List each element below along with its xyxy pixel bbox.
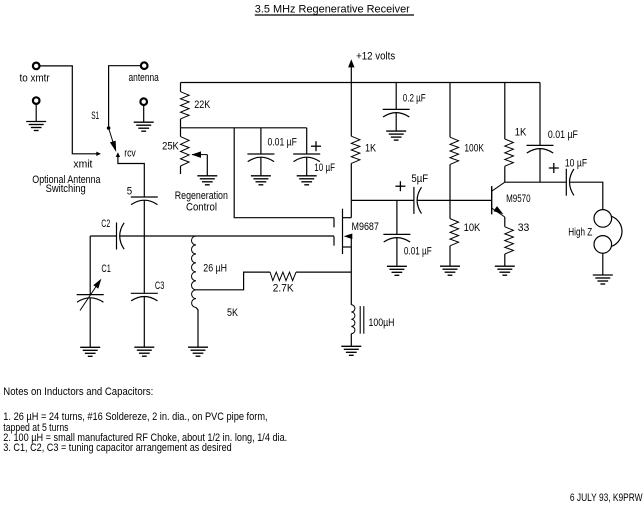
ground 0.01uF bypass bbox=[251, 176, 271, 185]
terminal antenna bbox=[141, 62, 148, 69]
capacitor 10 uF regen bypass bbox=[306, 128, 308, 154]
resistor 10K bbox=[450, 219, 459, 246]
svg-text:5K: 5K bbox=[227, 307, 239, 319]
svg-text:C2: C2 bbox=[101, 218, 110, 230]
wire drain to node bbox=[350, 200, 352, 217]
svg-text:3. C1, C2, C3 = tuning capacit: 3. C1, C2, C3 = tuning capacitor arrange… bbox=[3, 442, 231, 454]
ground 10uF bypass bbox=[297, 176, 317, 185]
plus sign 10uF bbox=[311, 145, 321, 147]
capacitor C1 variable bbox=[77, 294, 104, 296]
svg-text:5: 5 bbox=[127, 185, 132, 197]
wire wiper to ground bbox=[206, 155, 208, 176]
transistor M9570 NPN bbox=[491, 186, 493, 214]
capacitor C2 bbox=[116, 223, 118, 250]
inductor 100uH RF choke bbox=[351, 305, 355, 334]
wire choke to ground bbox=[350, 334, 352, 347]
wire C3 to ground bbox=[143, 297, 145, 348]
svg-text:10 µF: 10 µF bbox=[565, 157, 587, 169]
capacitor 5 pF antenna coupling bbox=[131, 196, 158, 198]
ground 10K bbox=[440, 266, 460, 275]
ground 26uH coil bbox=[188, 347, 208, 356]
inductor 26 uH tank coil bbox=[192, 236, 196, 307]
svg-text:+12 volts: +12 volts bbox=[356, 51, 396, 63]
wire phones to ground bbox=[602, 253, 604, 275]
svg-text:C3: C3 bbox=[155, 280, 164, 292]
svg-text:10K: 10K bbox=[464, 222, 481, 234]
ground 25K wiper bbox=[197, 176, 217, 185]
svg-text:S1: S1 bbox=[91, 110, 99, 122]
capacitor 0.01 uF output bypass bbox=[539, 83, 541, 146]
wire collector node bbox=[505, 181, 567, 183]
wire cap 5 to tank line bbox=[143, 200, 145, 236]
svg-text:Notes on Inductors and Capacit: Notes on Inductors and Capacitors: bbox=[3, 386, 153, 398]
plus sign 5uF bbox=[395, 185, 405, 187]
plus sign 10uF output bbox=[549, 167, 559, 169]
svg-text:to xmtr: to xmtr bbox=[20, 73, 50, 85]
svg-text:33: 33 bbox=[518, 222, 530, 234]
svg-text:High Z: High Z bbox=[568, 227, 592, 239]
capacitor 5uF coupling bbox=[413, 187, 415, 214]
svg-text:Regeneration: Regeneration bbox=[175, 190, 228, 202]
ground antenna terminal bbox=[134, 122, 154, 131]
svg-text:10 µF: 10 µF bbox=[314, 162, 335, 174]
svg-text:xmit: xmit bbox=[73, 159, 92, 171]
wire coil tap to 2.7K bbox=[196, 272, 270, 290]
terminal ground left bbox=[33, 97, 40, 104]
svg-text:1. 26 µH = 24 turns, #16 Solde: 1. 26 µH = 24 turns, #16 Soldereze, 2 in… bbox=[3, 411, 267, 423]
svg-text:0.2 µF: 0.2 µF bbox=[403, 93, 426, 105]
terminal to xmtr bbox=[33, 63, 40, 70]
capacitor C3 bbox=[131, 292, 158, 294]
wire 2.7K to source column bbox=[296, 271, 351, 273]
svg-text:antenna: antenna bbox=[129, 72, 160, 84]
+12 volts arrow bbox=[350, 67, 352, 83]
svg-text:6 JULY 93, K9PRW: 6 JULY 93, K9PRW bbox=[570, 492, 643, 504]
wire tank to C3 bbox=[143, 236, 145, 293]
svg-text:rcv: rcv bbox=[124, 148, 136, 160]
resistor 1K drain load bbox=[350, 83, 352, 137]
switch S1 blade bbox=[109, 128, 113, 142]
ground C1 bbox=[80, 347, 100, 356]
resistor 1K collector load bbox=[504, 83, 506, 140]
resistor 22K bbox=[180, 83, 182, 92]
svg-text:M9570: M9570 bbox=[506, 193, 530, 205]
title underline bbox=[255, 14, 414, 16]
wire drain node line bbox=[351, 199, 414, 201]
resistor 100K bbox=[449, 83, 451, 138]
svg-text:5µF: 5µF bbox=[411, 173, 428, 185]
svg-text:C1: C1 bbox=[101, 263, 110, 275]
capacitor 0.01 uF detector bypass bbox=[396, 200, 398, 234]
resistor 33 emitter bbox=[504, 217, 506, 227]
xmit contact arrow bbox=[96, 152, 101, 156]
svg-text:2.7K: 2.7K bbox=[273, 283, 294, 295]
svg-text:26 µH: 26 µH bbox=[203, 263, 227, 275]
svg-text:1K: 1K bbox=[365, 143, 377, 155]
ground 0.01uF detector bbox=[387, 266, 407, 275]
resistor 2.7K bbox=[270, 272, 296, 281]
ground 0.2uF bbox=[386, 131, 406, 140]
svg-text:100K: 100K bbox=[464, 142, 484, 154]
wire rcv contact to cap 5 bbox=[118, 157, 144, 197]
wire C1 branch down bbox=[89, 236, 91, 295]
transistor M9687 dual-gate MOSFET bbox=[333, 218, 335, 228]
svg-text:M9687: M9687 bbox=[352, 221, 379, 233]
svg-text:0.01 µF: 0.01 µF bbox=[404, 246, 432, 258]
headphones High Z bbox=[594, 210, 612, 228]
svg-text:100µH: 100µH bbox=[369, 317, 395, 329]
ground choke bbox=[341, 346, 361, 355]
svg-text:25K: 25K bbox=[162, 140, 179, 152]
ground phones bbox=[593, 275, 613, 284]
rcv contact arrow bbox=[116, 152, 120, 157]
ground C3 bbox=[134, 347, 154, 356]
wire regen node to gate1 bbox=[234, 128, 334, 218]
capacitor 0.2 uF supply bypass bbox=[395, 83, 397, 110]
25K wiper arrow bbox=[192, 154, 207, 156]
potentiometer 25K bbox=[180, 128, 182, 137]
wire terminal to ground bbox=[35, 104, 37, 122]
wire C1 to ground bbox=[89, 298, 91, 348]
svg-text:Control: Control bbox=[186, 202, 217, 214]
wire coil bottom to ground bbox=[196, 307, 198, 347]
ground left terminal bbox=[26, 122, 46, 131]
regen node line bbox=[181, 127, 307, 129]
svg-text:0.01 µF: 0.01 µF bbox=[268, 137, 298, 149]
wire tank line C2 to gate2 bbox=[120, 235, 334, 237]
terminal ground right bbox=[140, 98, 147, 105]
switch S1 pivot dot bbox=[107, 126, 111, 130]
wire tank corner to C2 bbox=[90, 235, 116, 237]
svg-text:0.01 µF: 0.01 µF bbox=[548, 129, 578, 141]
capacitor 10 uF output coupling bbox=[565, 169, 567, 196]
wire source down to choke bbox=[350, 236, 352, 304]
svg-text:1K: 1K bbox=[515, 127, 527, 139]
wire terminal to ground bbox=[143, 105, 145, 122]
wire 10uF to phones bbox=[570, 182, 603, 209]
power rail +12V top bbox=[181, 82, 541, 84]
wire antenna to switch pivot bbox=[109, 66, 141, 127]
wire to-xmtr to xmit contact bbox=[40, 66, 97, 154]
wire 5uF to base bbox=[417, 199, 492, 201]
ground 33 emitter bbox=[495, 266, 515, 275]
capacitor 0.01 uF regen bypass bbox=[260, 128, 262, 154]
svg-text:22K: 22K bbox=[194, 99, 211, 111]
svg-text:3.5 MHz Regenerative Receiver: 3.5 MHz Regenerative Receiver bbox=[255, 3, 410, 15]
svg-text:Switching: Switching bbox=[46, 183, 86, 195]
